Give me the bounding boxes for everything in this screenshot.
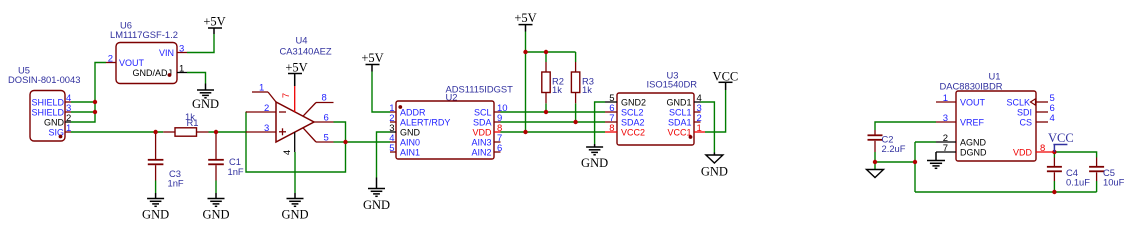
svg-text:ALERT/RDY: ALERT/RDY [400,117,450,127]
ADC U2 [389,83,513,159]
ground under U3 GND2 [581,144,608,170]
wire U3 VCC1 to VCC [705,90,726,132]
wire C2 bottom to gnd arrow and AGND [875,142,936,192]
wire 5V to U2 ADDR [372,72,390,113]
wire C1 bottom to ground [215,181,217,194]
op-amp U4 [246,35,334,156]
capacitor C1 [208,134,244,181]
svg-text:4: 4 [1050,113,1055,124]
svg-text:SCL1: SCL1 [669,107,692,117]
svg-text:CA3140AEZ: CA3140AEZ [280,46,332,57]
svg-text:7: 7 [943,143,948,154]
capacitor C3 [148,134,184,189]
ground under U2 [363,178,390,212]
svg-text:DOSIN-801-0043: DOSIN-801-0043 [8,74,80,85]
wire C3 bottom to ground [155,181,157,194]
wire 5V rail to R2 R3 tops [526,52,576,62]
svg-text:GND: GND [400,127,421,137]
svg-text:SDA: SDA [473,117,492,127]
svg-text:3: 3 [943,113,948,124]
svg-text:8: 8 [322,93,327,104]
svg-text:AIN1: AIN1 [400,147,420,157]
svg-text:VDD: VDD [472,127,492,137]
svg-text:1k: 1k [552,84,562,95]
svg-text:1: 1 [259,83,264,94]
svg-text:1: 1 [179,64,184,75]
svg-text:+5V: +5V [285,60,307,74]
svg-text:GND: GND [202,207,229,221]
svg-text:1nF: 1nF [228,166,244,177]
isolator U3 [605,69,705,145]
ground under U6 [192,84,219,111]
svg-text:1: 1 [697,123,702,134]
svg-text:1: 1 [66,123,71,134]
svg-text:+5V: +5V [361,51,383,65]
svg-text:R1: R1 [187,117,199,128]
wire R3 bottom to SDA [575,103,577,122]
resistor R1 [163,111,208,136]
power VCC for U3 [713,69,739,90]
capacitor C5 [1089,158,1125,188]
svg-text:VREF: VREF [960,117,985,127]
regulator U6 [106,20,187,84]
svg-text:SDA1: SDA1 [668,117,692,127]
wire op-amp pin4 to ground [294,152,296,193]
wire U3 GND2 to ground [595,102,605,144]
resistor R2 [542,62,564,103]
svg-text:DGND: DGND [960,147,987,157]
capacitor C2 [868,130,906,154]
svg-text:GND1: GND1 [666,97,691,107]
power +5V for U6 [203,15,225,35]
svg-text:SHIELD: SHIELD [31,97,64,107]
svg-text:3: 3 [264,123,269,134]
svg-text:3: 3 [179,44,184,55]
wire SDA U2 to U3 [501,121,606,123]
wire bottom rail right section [915,191,1097,193]
wire U1 VREF to C2 [875,122,936,130]
power +5V for op-amp [285,60,307,86]
wire U6 VOUT to U5 shields and GND pin [71,63,106,123]
connector U5 [8,65,80,142]
svg-text:U4: U4 [296,35,308,46]
wire net 5V to U6 VIN [187,34,214,53]
svg-text:GND/ADJ: GND/ADJ [132,68,172,78]
svg-text:AGND: AGND [960,137,987,147]
svg-text:7: 7 [281,93,292,98]
wire R2 bottom to SCL [545,103,547,112]
power +5V for R2 R3 rail [514,11,536,32]
svg-text:8: 8 [1040,143,1045,154]
svg-text:6: 6 [497,143,502,154]
svg-text:DAC8830IBDR: DAC8830IBDR [940,80,1003,91]
svg-text:GND: GND [363,198,390,212]
svg-text:GND: GND [44,117,65,127]
svg-text:VOUT: VOUT [119,58,145,68]
svg-text:CS: CS [1019,117,1032,127]
svg-text:GND: GND [142,207,169,221]
svg-text:VOUT: VOUT [960,97,986,107]
svg-text:VCC: VCC [1048,131,1074,145]
wire U2 GND to ground [377,132,391,178]
ground under C3 [142,193,169,221]
svg-text:VDD: VDD [1013,147,1033,157]
svg-text:ADDR: ADDR [400,107,426,117]
power VCC for U1 [1048,131,1074,152]
svg-text:GND: GND [701,164,728,178]
DAC U1 [936,70,1055,161]
svg-text:VCC1: VCC1 [667,127,691,137]
svg-text:SCL2: SCL2 [621,107,644,117]
wire op-amp output to U2 AIN0 [346,141,391,143]
wire feedback loop pin6 to pin2 [246,112,346,172]
svg-text:GND2: GND2 [621,97,646,107]
wire VDD U2 to U3 VCC2 [501,131,606,133]
svg-text:1nF: 1nF [168,178,184,189]
ground under C1 [202,193,229,221]
resistor R3 [571,62,594,103]
svg-text:LM1117GSF-1.2: LM1117GSF-1.2 [110,29,178,40]
wire U3 GND1 to ground arrow [701,102,715,153]
svg-text:ISO1540DR: ISO1540DR [647,78,698,89]
svg-text:GND: GND [581,156,608,170]
wire R1 to op-amp pin3 [209,131,246,133]
svg-text:SDI: SDI [1017,107,1032,117]
svg-text:+5V: +5V [203,15,225,29]
ground arrow under C2 [867,170,884,178]
svg-text:1k: 1k [582,84,592,95]
svg-text:AIN2: AIN2 [471,147,491,157]
svg-text:+5V: +5V [514,11,536,25]
wire VCC row to C4 C5 [1054,152,1096,192]
svg-text:5: 5 [389,143,394,154]
svg-text:6: 6 [324,113,329,124]
ground ladder for U1 DGND [927,152,945,168]
svg-text:2: 2 [108,54,113,65]
capacitor C4 [1047,158,1090,188]
wire SCL U2 to U3 [501,111,606,113]
svg-text:0.1uF: 0.1uF [1066,177,1090,188]
svg-text:VCC: VCC [713,69,739,83]
svg-text:VCC2: VCC2 [621,127,645,137]
svg-text:1: 1 [943,93,948,104]
svg-text:GND: GND [281,207,308,221]
svg-text:4: 4 [282,150,293,155]
svg-text:SHIELD: SHIELD [31,107,64,117]
svg-text:SCL: SCL [474,107,492,117]
wire U6 GND/ADJ to ground [187,73,206,84]
svg-text:2.2uF: 2.2uF [882,143,906,154]
svg-text:SCLK: SCLK [1006,97,1030,107]
power +5V for U2 ADDR [361,51,383,72]
svg-text:AIN0: AIN0 [400,137,420,147]
svg-text:2: 2 [264,103,269,114]
svg-text:8: 8 [609,123,614,134]
svg-text:GND: GND [192,97,219,111]
svg-text:10uF: 10uF [1103,177,1125,188]
wire SIG net U5.1 to R1 [71,131,163,133]
svg-text:AIN3: AIN3 [471,137,491,147]
svg-text:VIN: VIN [159,48,174,58]
svg-text:SDA2: SDA2 [621,117,645,127]
wire 5V vertical to VDD line [525,32,527,133]
ground under op-amp [281,193,308,221]
svg-text:5: 5 [324,133,329,144]
ground arrow under U3 [701,153,728,179]
